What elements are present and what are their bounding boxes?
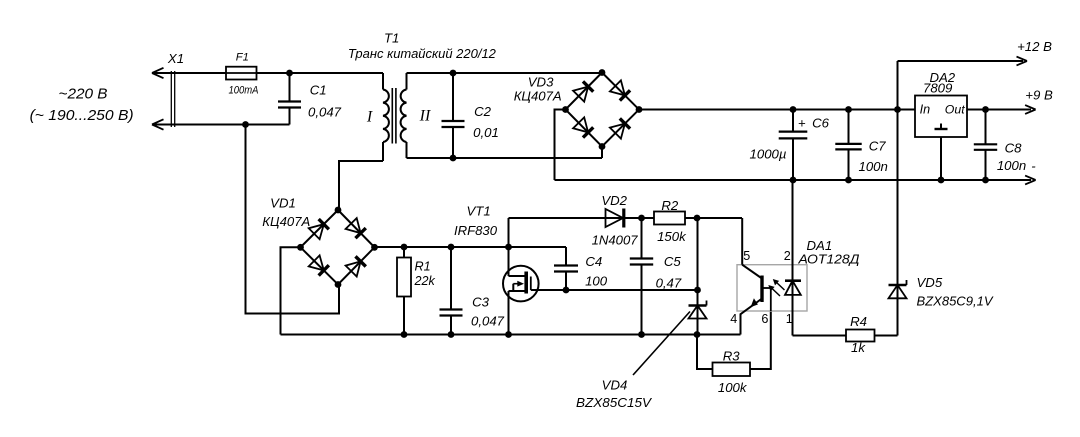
arrow +12V [1017,57,1028,66]
node VD4 anode rail [694,331,701,338]
wire VD3 left to 0V rail [555,110,566,181]
wire +9V out [967,109,1031,111]
svg-text:VT1: VT1 [467,203,491,218]
node VT1 drain junction [505,244,512,251]
svg-text:C4: C4 [585,254,602,269]
wire primary to VD1 bridge [339,161,383,210]
label DA1 [797,238,859,267]
label VD5 [917,275,994,309]
node C4 bottom [563,287,570,294]
wire pin1 to R4 [793,335,847,337]
svg-text:0,047: 0,047 [308,104,342,119]
svg-text:4: 4 [730,312,737,326]
node A junction [286,70,293,77]
diode VD2 [592,193,639,248]
svg-text:-: - [1031,159,1036,174]
svg-text:R3: R3 [723,349,741,364]
diode VD3.1 [573,81,593,101]
label VD4 [576,378,652,411]
svg-text:АОТ128Д: АОТ128Д [797,252,859,267]
svg-text:I: I [366,109,373,126]
label VD1 [262,195,310,229]
wire mains drop to VD1 [246,125,340,314]
wire +12V riser [897,61,899,336]
svg-text:In: In [920,102,931,116]
svg-text:(~ 190...250 В): (~ 190...250 В) [30,108,134,124]
node VD1 right [371,244,378,251]
svg-text:1: 1 [786,312,793,326]
svg-text:100k: 100k [718,380,748,395]
node C6 top [790,106,797,113]
svg-text:2: 2 [784,249,791,263]
node gate VD4 [694,287,701,294]
node VD3 left [562,106,569,113]
svg-text:R2: R2 [661,198,679,213]
svg-text:VD3: VD3 [528,75,554,90]
zener VD4 [689,301,707,319]
svg-text:7809: 7809 [923,80,953,95]
resistor R2 [654,198,742,244]
svg-text:C1: C1 [310,82,327,97]
svg-text:BZX85C15V: BZX85C15V [576,395,652,410]
node VD1 top [335,207,342,214]
wire drain riser [508,218,510,247]
svg-text:Out: Out [945,102,965,116]
svg-text:1000µ: 1000µ [750,147,787,162]
svg-text:22k: 22k [414,274,436,288]
node R2 right [694,215,701,222]
svg-text:T1: T1 [384,31,399,46]
node C6 bottom [790,177,797,184]
bridge VD3 frame [566,73,640,147]
node VD3 bottom [599,143,606,150]
wire mains bottom [152,124,290,126]
optocoupler DA1 phototransistor [741,265,771,315]
svg-text:+9 В: +9 В [1025,88,1053,103]
diode VD3.4 [610,118,630,138]
diode VD1.3 [309,255,329,275]
wire pin2 riser [792,180,794,281]
pin 5 [743,249,750,263]
svg-text:C8: C8 [1005,140,1023,155]
wire R2 to gate node [697,218,699,335]
capacitor C3 [440,247,505,335]
node DA2 gnd [938,177,945,184]
pin 4 [730,312,737,326]
wire HV 0V rail [281,334,741,336]
node C5 top [638,215,645,222]
svg-text:+12 В: +12 В [1017,39,1052,54]
capacitor C4 [554,247,608,290]
svg-text:100n: 100n [997,158,1026,173]
wire secondary bottom [407,147,603,159]
optocoupler DA1 led [785,281,801,336]
label minus [1031,159,1036,174]
arrow mains bottom [152,119,164,129]
pin 1 [786,312,793,326]
node VD1 bottom [335,281,342,288]
label VD3 [514,75,562,104]
node VD3 right [636,106,643,113]
label +9V [1025,88,1053,103]
node VD3 top [599,69,606,76]
arrow minus output [1025,176,1036,185]
resistor R4 [846,314,898,355]
svg-text:150k: 150k [657,229,687,244]
diode VD1.1 [309,219,329,239]
transistor VT1 [454,203,539,334]
svg-text:6: 6 [761,312,768,326]
node +12 junction [894,106,901,113]
svg-text:VD4: VD4 [602,378,628,393]
node C8 top [982,106,989,113]
svg-text:+: + [798,115,806,130]
node C7 bottom [845,177,852,184]
label +12V [1017,39,1052,54]
capacitor C8 [974,110,1026,181]
node C5 bottom [638,331,645,338]
svg-text:C5: C5 [664,254,682,269]
arrow mains top [152,68,164,78]
svg-text:КЦ407А: КЦ407А [262,214,310,229]
svg-text:C7: C7 [869,138,887,153]
pin 2 [784,249,791,263]
optocoupler DA1 light arrows [768,279,784,296]
node C2 top [450,70,457,77]
svg-text:1k: 1k [851,340,866,355]
svg-text:R4: R4 [850,314,867,329]
svg-text:~220 В: ~220 В [59,87,108,103]
svg-text:VD5: VD5 [917,275,943,290]
capacitor C6 [750,110,830,181]
transformer T1 primary winding I [366,73,389,161]
node VD1 left [297,244,304,251]
wire gate line [531,289,698,291]
node B junction [242,121,249,128]
svg-text:0,047: 0,047 [471,314,505,329]
node R1 bottom [401,331,408,338]
pin 6 [761,312,768,326]
transformer T1 core [392,88,396,144]
transformer T1 secondary winding II [401,73,431,158]
svg-text:F1: F1 [236,52,249,64]
capacitor C2 [442,73,499,158]
wire drive line [509,217,655,219]
wire pin5 riser [741,218,743,265]
resistor R1 [397,247,436,335]
wire +12V out [898,60,1024,62]
svg-text:0,47: 0,47 [656,275,682,290]
optocoupler DA1 box [737,265,807,311]
svg-text:C6: C6 [812,115,830,130]
node C7 top [845,106,852,113]
svg-text:100: 100 [585,274,608,289]
arrow +9V [1025,105,1036,114]
diode VD3.3 [573,117,593,137]
svg-text:II: II [419,108,431,125]
regulator DA2 [915,70,967,137]
fuse F1 [226,52,259,97]
node C8 bottom [982,177,989,184]
wire 0V rail [555,179,1032,181]
node C3 bottom [448,331,455,338]
wire VD1 left to HV 0V [281,247,301,334]
resistor R3 [697,311,771,395]
svg-text:VD1: VD1 [270,195,296,210]
capacitor C5 [630,218,682,335]
node C3 top [448,244,455,251]
wire mains top [152,72,383,74]
svg-text:VD2: VD2 [601,193,627,208]
diode VD1.2 [346,218,366,238]
ground pin DA2 [935,124,948,181]
svg-text:C3: C3 [472,295,490,310]
svg-text:0,01: 0,01 [473,125,499,140]
svg-text:BZX85C9,1V: BZX85C9,1V [917,294,994,309]
svg-text:100mA: 100mA [229,85,259,97]
node VT1 source rail [505,331,512,338]
node X1 connector [167,51,184,127]
svg-text:100n: 100n [859,159,888,174]
node R1 top [401,244,408,251]
label ~220 V [30,87,134,125]
label T1 [348,31,497,61]
wire pin4 to rail [740,314,742,335]
svg-text:R1: R1 [415,260,431,274]
capacitor C7 [835,110,888,181]
diode VD1.4 [346,256,366,276]
wire secondary top [407,72,603,74]
wire mid rail [375,246,567,248]
svg-text:КЦ407А: КЦ407А [514,89,562,104]
svg-text:IRF830: IRF830 [454,223,498,238]
svg-text:5: 5 [743,249,750,263]
svg-text:1N4007: 1N4007 [592,233,639,248]
zener VD5 [889,280,907,298]
svg-text:X1: X1 [167,51,184,66]
wire +rail to DA2 [639,109,915,111]
node C2 bottom [450,155,457,162]
bridge VD1 frame [301,210,375,285]
svg-text:Транс китайский 220/12: Транс китайский 220/12 [348,46,497,61]
svg-text:C2: C2 [474,104,492,119]
diode VD3.2 [610,80,630,100]
capacitor C1 [278,73,342,125]
annotation line VD4 [633,312,690,376]
